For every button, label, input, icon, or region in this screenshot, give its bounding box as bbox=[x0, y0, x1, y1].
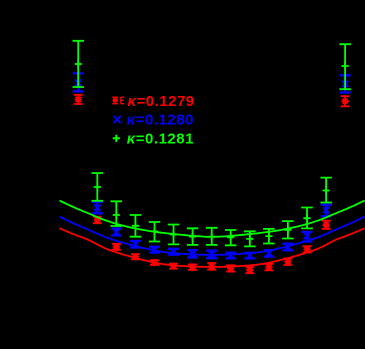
svg-text:κ=0.1281: κ=0.1281 bbox=[127, 130, 194, 147]
green dataset kappa=0.1281 markers (+) bbox=[75, 60, 349, 242]
svg-text:κ=0.1280: κ=0.1280 bbox=[127, 112, 194, 129]
green fit curve kappa=0.1281 bbox=[60, 201, 365, 237]
green dataset kappa=0.1281 error bars bbox=[73, 41, 351, 247]
blue dataset kappa=0.1280 markers (X) bbox=[75, 80, 348, 259]
legend marker green plus bbox=[113, 135, 120, 142]
svg-text:κ=0.1279: κ=0.1279 bbox=[128, 93, 195, 110]
blue dataset kappa=0.1280 error bars bbox=[73, 73, 351, 258]
blue fit curve kappa=0.1280 bbox=[60, 217, 365, 255]
red fit curve kappa=0.1279 bbox=[60, 228, 365, 267]
legend marker red (errorbar sample) bbox=[112, 97, 124, 104]
red dataset kappa=0.1279 error bars bbox=[74, 95, 350, 273]
red dataset kappa=0.1279 markers (asterisk) bbox=[75, 96, 349, 274]
legend marker blue X bbox=[113, 116, 120, 123]
